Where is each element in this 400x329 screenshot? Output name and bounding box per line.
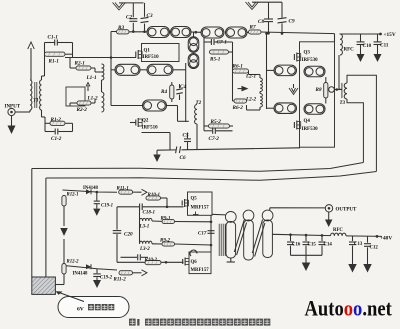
svg-text:C7-1: C7-1 xyxy=(217,39,228,45)
svg-text:R11-2: R11-2 xyxy=(114,278,127,283)
svg-text:R8: R8 xyxy=(316,87,322,93)
svg-text:R12-2: R12-2 xyxy=(67,260,80,265)
svg-text:C8: C8 xyxy=(258,19,264,25)
svg-text:+48V: +48V xyxy=(380,235,392,241)
svg-text:C3: C3 xyxy=(147,13,153,19)
svg-text:Q4: Q4 xyxy=(304,119,311,124)
svg-text:Q6: Q6 xyxy=(191,260,198,265)
svg-text:Autooo.net: Autooo.net xyxy=(305,297,392,321)
svg-text:L3-2: L3-2 xyxy=(139,247,150,252)
svg-text:C1-2: C1-2 xyxy=(51,136,62,142)
svg-text:C15: C15 xyxy=(308,242,317,247)
svg-text:C13: C13 xyxy=(354,242,363,247)
svg-text:C1-1: C1-1 xyxy=(48,35,59,41)
svg-text:IRF510: IRF510 xyxy=(143,55,160,60)
svg-text:C6: C6 xyxy=(180,155,186,161)
svg-text:IN4148: IN4148 xyxy=(73,272,89,277)
svg-text:MRF157: MRF157 xyxy=(191,268,210,273)
svg-text:IRF530: IRF530 xyxy=(302,127,319,132)
svg-text:Q2: Q2 xyxy=(142,119,149,124)
svg-text:T1: T1 xyxy=(33,98,39,104)
svg-text:R2-2: R2-2 xyxy=(77,107,88,113)
svg-text:IRF530: IRF530 xyxy=(302,58,319,63)
svg-text:C10: C10 xyxy=(363,44,372,49)
svg-text:L3-1: L3-1 xyxy=(139,225,150,230)
svg-text:MRF157: MRF157 xyxy=(191,205,210,210)
svg-text:C7-2: C7-2 xyxy=(209,136,220,142)
svg-text:RFC: RFC xyxy=(344,48,355,53)
svg-text:C20: C20 xyxy=(124,232,133,238)
svg-text:T2: T2 xyxy=(196,100,202,106)
svg-text:C19-2: C19-2 xyxy=(100,276,113,281)
svg-text:R4: R4 xyxy=(161,89,167,95)
svg-text:L1-1: L1-1 xyxy=(86,75,97,81)
svg-text:L2-1: L2-1 xyxy=(245,74,256,80)
svg-text:RFC: RFC xyxy=(333,228,343,233)
svg-text:C19-1: C19-1 xyxy=(101,204,113,209)
svg-text:C2: C2 xyxy=(126,15,132,21)
svg-text:R1-1: R1-1 xyxy=(49,59,60,65)
svg-text:6V: 6V xyxy=(77,306,84,312)
svg-text:+15V: +15V xyxy=(384,32,396,38)
svg-text:OUTPUT: OUTPUT xyxy=(336,208,358,213)
svg-text:R3: R3 xyxy=(118,25,124,31)
svg-text:R12-1: R12-1 xyxy=(67,193,79,198)
svg-text:Q1: Q1 xyxy=(144,49,151,54)
svg-text:Q3: Q3 xyxy=(304,51,311,56)
svg-text:IN4148: IN4148 xyxy=(83,186,99,191)
svg-text:C11: C11 xyxy=(380,44,389,49)
svg-text:IRF510: IRF510 xyxy=(142,126,159,131)
svg-text:T3: T3 xyxy=(340,101,346,106)
svg-text:C16: C16 xyxy=(292,242,301,247)
svg-text:Q5: Q5 xyxy=(191,197,198,202)
svg-text:C14: C14 xyxy=(324,242,333,247)
svg-text:R5-1: R5-1 xyxy=(210,57,221,63)
svg-text:C12: C12 xyxy=(370,246,379,251)
svg-text:R6-2: R6-2 xyxy=(233,105,244,111)
svg-text:C18-1: C18-1 xyxy=(143,211,156,216)
svg-text:C5: C5 xyxy=(183,133,189,139)
svg-text:C17: C17 xyxy=(198,231,207,236)
svg-text:C9: C9 xyxy=(289,19,295,25)
